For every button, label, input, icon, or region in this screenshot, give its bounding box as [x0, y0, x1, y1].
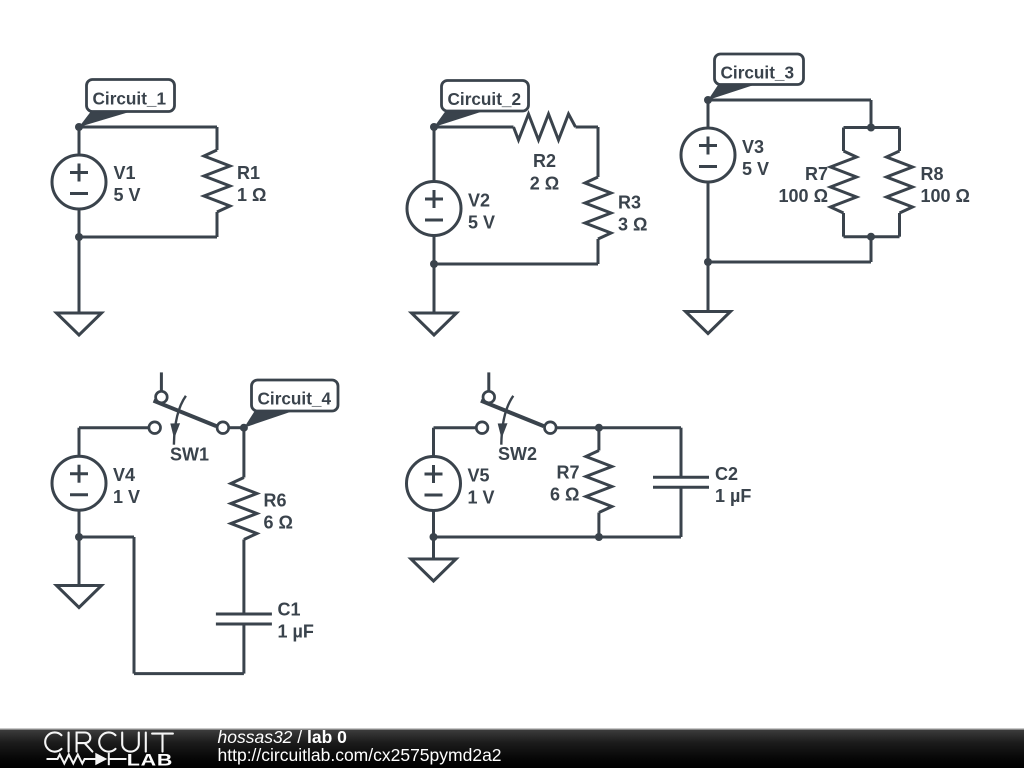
voltage source V3: [681, 128, 735, 182]
node circuit5 bottom left junction: [430, 533, 438, 541]
wire circuit1 top rail: [79, 126, 217, 129]
wire C1 bottom lead: [242, 624, 245, 674]
resistor R8: [887, 151, 913, 213]
wire R7 bottom lead (circuit5): [597, 513, 600, 538]
svg-text:6 Ω: 6 Ω: [550, 485, 579, 505]
switch SW2: [476, 372, 556, 444]
svg-text:R8: R8: [921, 164, 944, 184]
label R7 name and value (circuit5): [550, 463, 579, 505]
svg-text:5 V: 5 V: [468, 213, 495, 233]
resistor R1: [204, 150, 230, 212]
wire to ground circuit5: [432, 537, 435, 559]
wire circuit4 left return: [133, 537, 136, 674]
svg-text:C2: C2: [715, 464, 738, 484]
wire R7 bottom lead: [842, 213, 845, 237]
label V4 name and value: [113, 465, 140, 507]
svg-text:1 V: 1 V: [113, 487, 140, 507]
wire R7 top lead (circuit5): [597, 428, 600, 451]
svg-text:SW1: SW1: [170, 445, 209, 465]
svg-text:100 Ω: 100 Ω: [921, 186, 970, 206]
wire V5 to switch SW2: [434, 426, 477, 429]
wire R2 right lead: [576, 126, 599, 129]
node label bubble Circuit_1: [79, 80, 175, 128]
svg-text:hossas32 / lab 0: hossas32 / lab 0: [218, 727, 348, 747]
label R2 name and value: [530, 151, 559, 194]
label R6 name and value: [264, 491, 293, 533]
resistor R2: [514, 114, 576, 140]
CircuitLab logo LAB text: [127, 752, 173, 768]
label V2 name and value: [468, 191, 495, 233]
node label bubble Circuit_4: [244, 380, 338, 428]
svg-text:Circuit_1: Circuit_1: [93, 89, 167, 109]
svg-text:http://circuitlab.com/cx2575py: http://circuitlab.com/cx2575pymd2a2: [218, 745, 502, 765]
ground circuit4: [57, 586, 102, 608]
svg-text:V4: V4: [113, 465, 135, 485]
voltage source V4: [52, 456, 106, 510]
wire R3 bottom lead: [597, 239, 600, 264]
svg-text:R7: R7: [556, 463, 579, 483]
svg-text:1 µF: 1 µF: [278, 622, 314, 642]
switch SW1: [149, 372, 229, 444]
node circuit1 bottom junction: [75, 233, 83, 241]
wire parallel bottom bar: [844, 235, 900, 238]
wire SW1 to node: [229, 426, 244, 429]
voltage source V2: [407, 182, 461, 236]
wire V5 bottom lead: [432, 511, 435, 538]
node circuit4 bottom junction: [75, 533, 83, 541]
node circuit3 bottom junction: [704, 258, 712, 266]
node parallel bottom junction: [867, 233, 875, 241]
node circuit3 top junction: [704, 96, 712, 104]
svg-text:3 Ω: 3 Ω: [618, 215, 647, 235]
svg-text:V5: V5: [468, 466, 490, 486]
wire circuit2 top rail left: [434, 126, 514, 129]
svg-text:R2: R2: [533, 151, 556, 171]
wire circuit2 bottom rail: [434, 263, 598, 266]
svg-text:1 µF: 1 µF: [715, 486, 751, 506]
node label bubble Circuit_2: [434, 81, 529, 128]
wire V4 bottom lead: [78, 510, 81, 537]
svg-text:R7: R7: [805, 164, 828, 184]
label V3 name and value: [742, 137, 769, 179]
svg-text:Circuit_2: Circuit_2: [448, 89, 522, 109]
svg-text:Circuit_4: Circuit_4: [258, 389, 332, 409]
wire V2 bottom lead: [433, 236, 436, 265]
resistor R7 (circuit5): [586, 451, 612, 513]
wire circuit1 bottom rail: [79, 236, 217, 239]
label R7 name and value (circuit3): [779, 164, 828, 206]
ground circuit3: [686, 312, 731, 334]
node label bubble Circuit_3: [708, 54, 804, 100]
svg-text:R3: R3: [618, 193, 641, 213]
label C1 name and value: [278, 600, 314, 642]
label C2 name and value: [715, 464, 751, 506]
footer bar top separator line: [0, 729, 1024, 730]
wire R6 to C1: [242, 540, 245, 615]
resistor R6: [231, 478, 257, 540]
wire V1 top lead: [78, 127, 81, 155]
wire circuit3 bottom rail: [708, 261, 871, 264]
wire R1 bottom lead: [216, 212, 219, 237]
wire to R3: [597, 127, 600, 177]
wire circuit3 top rail: [708, 99, 871, 102]
node circuit2 top junction: [430, 123, 438, 131]
svg-text:V1: V1: [114, 163, 136, 183]
wire R6 top lead: [242, 428, 245, 478]
svg-text:R6: R6: [264, 491, 287, 511]
wire R8 top lead: [898, 128, 901, 152]
wire down to parallel pair: [870, 100, 873, 128]
wire SW2 to node: [556, 426, 599, 429]
svg-text:LAB: LAB: [127, 752, 173, 768]
svg-text:Circuit_3: Circuit_3: [721, 62, 795, 82]
ground circuit5: [411, 559, 456, 581]
wire parallel top bar: [844, 126, 900, 129]
wire down from parallel pair: [870, 237, 873, 262]
wire V4 top lead: [78, 428, 81, 457]
svg-text:V2: V2: [468, 191, 490, 211]
wire R1 top lead: [216, 127, 219, 150]
svg-text:6 Ω: 6 Ω: [264, 513, 293, 533]
svg-text:V3: V3: [742, 137, 764, 157]
label V1 name and value: [114, 163, 141, 205]
wire R8 bottom lead: [898, 213, 901, 237]
wire V4 bottom to return: [79, 536, 134, 539]
node circuit2 bottom junction: [430, 260, 438, 268]
wire to ground circuit4: [78, 537, 81, 586]
svg-text:5 V: 5 V: [742, 159, 769, 179]
node circuit1 top junction: [75, 123, 83, 131]
wire to ground circuit1: [78, 237, 81, 313]
voltage source V1: [52, 155, 106, 209]
resistor R3: [585, 177, 611, 239]
svg-text:5 V: 5 V: [114, 185, 141, 205]
capacitor C2: [653, 477, 709, 487]
wire V3 top lead: [707, 100, 710, 129]
svg-text:SW2: SW2: [498, 444, 537, 464]
wire R7 top lead: [842, 128, 845, 152]
node circuit5 bottom junction: [595, 533, 603, 541]
svg-text:100 Ω: 100 Ω: [779, 186, 828, 206]
node circuit4 top junction: [240, 424, 248, 432]
svg-text:2 Ω: 2 Ω: [530, 174, 559, 194]
voltage source V5: [407, 457, 461, 511]
node parallel top junction: [867, 124, 875, 132]
label V5 name and value: [468, 466, 495, 508]
wire to ground circuit3: [707, 262, 710, 312]
CircuitLab logo diode triangle: [95, 753, 107, 765]
svg-text:R1: R1: [237, 163, 260, 183]
ground circuit2: [412, 313, 457, 335]
ground circuit1: [57, 313, 102, 335]
capacitor C1: [216, 614, 272, 624]
label R3 name and value: [618, 193, 647, 235]
CircuitLab logo wordmark CIRCUIT: [45, 732, 173, 751]
svg-text:C1: C1: [278, 600, 301, 620]
wire V4 to switch SW1: [79, 426, 149, 429]
wire to ground circuit2: [433, 264, 436, 313]
resistor R7 (circuit3): [831, 151, 857, 213]
wire V3 bottom lead: [707, 182, 710, 262]
wire circuit4 bottom rail: [134, 672, 244, 675]
wire V2 top lead: [433, 127, 436, 182]
label R8 name and value: [921, 164, 970, 206]
wire V1 bottom lead: [78, 209, 81, 237]
svg-text:1 V: 1 V: [468, 488, 495, 508]
svg-text:1 Ω: 1 Ω: [237, 185, 266, 205]
wire C2 bottom lead: [680, 487, 683, 537]
label R1 name and value: [237, 163, 266, 205]
CircuitLab logo resistor-diode glyph: [47, 753, 127, 765]
node circuit5 top junction: [595, 424, 603, 432]
wire circuit5 top rail right: [599, 426, 681, 429]
wire V5 top lead: [432, 428, 435, 457]
wire circuit5 bottom rail: [434, 536, 682, 539]
footer black bar: [0, 729, 1024, 768]
wire C2 top lead: [680, 428, 683, 478]
